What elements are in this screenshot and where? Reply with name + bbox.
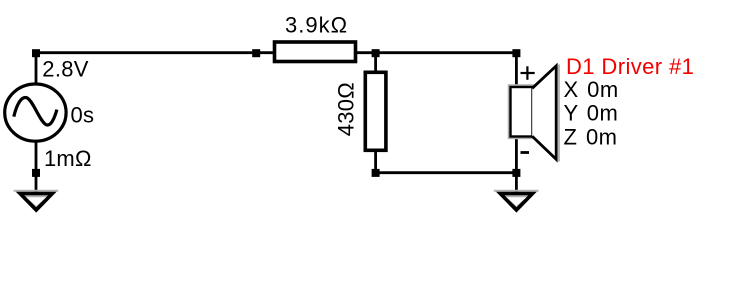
junction dot R1 left pin — [252, 49, 260, 57]
wire R2 bottom pin — [374, 150, 377, 173]
speaker driver D1 symbol — [509, 65, 559, 162]
junction dot speaker plus node — [512, 49, 520, 57]
wire speaker bottom pin — [515, 135, 518, 173]
svg-text:X 0m: X 0m — [564, 77, 619, 102]
wire top net: R1 right pin to speaker plus node — [356, 51, 516, 54]
svg-text:430Ω: 430Ω — [334, 82, 359, 136]
svg-text:2.8V: 2.8V — [42, 57, 88, 82]
svg-text:0s: 0s — [71, 103, 95, 128]
svg-text:D1 Driver #1: D1 Driver #1 — [566, 54, 694, 79]
junction dot R1 right / R2 top node — [372, 49, 380, 57]
junction dot speaker minus node — [512, 169, 520, 177]
wire top net: source node to R1 left pin — [36, 51, 274, 54]
voltage source V1 (AC sine source) — [5, 84, 66, 141]
svg-text:Y 0m: Y 0m — [564, 101, 619, 126]
ground (right) — [494, 191, 539, 213]
plus terminal mark — [521, 66, 535, 80]
ground (left) — [14, 191, 59, 213]
svg-text:1mΩ: 1mΩ — [44, 146, 92, 171]
junction dot R2 bottom node — [372, 169, 380, 177]
wire source bottom pin to ground — [35, 141, 38, 193]
resistor R2 430 vertical body — [365, 72, 386, 150]
wire right ground stem — [515, 173, 518, 193]
resistor R1 3.9k horizontal body — [275, 42, 356, 62]
svg-text:Z 0m: Z 0m — [564, 124, 618, 149]
wire R2 top pin — [374, 53, 377, 74]
minus terminal mark — [521, 151, 530, 154]
wire speaker top pin — [515, 53, 518, 89]
junction dot source bottom node — [32, 169, 40, 177]
junction dot source top node — [32, 49, 40, 57]
wire bottom net: R2 bottom to speaker minus node — [376, 171, 517, 174]
wire source top pin — [35, 53, 38, 86]
svg-text:3.9kΩ: 3.9kΩ — [285, 12, 348, 37]
